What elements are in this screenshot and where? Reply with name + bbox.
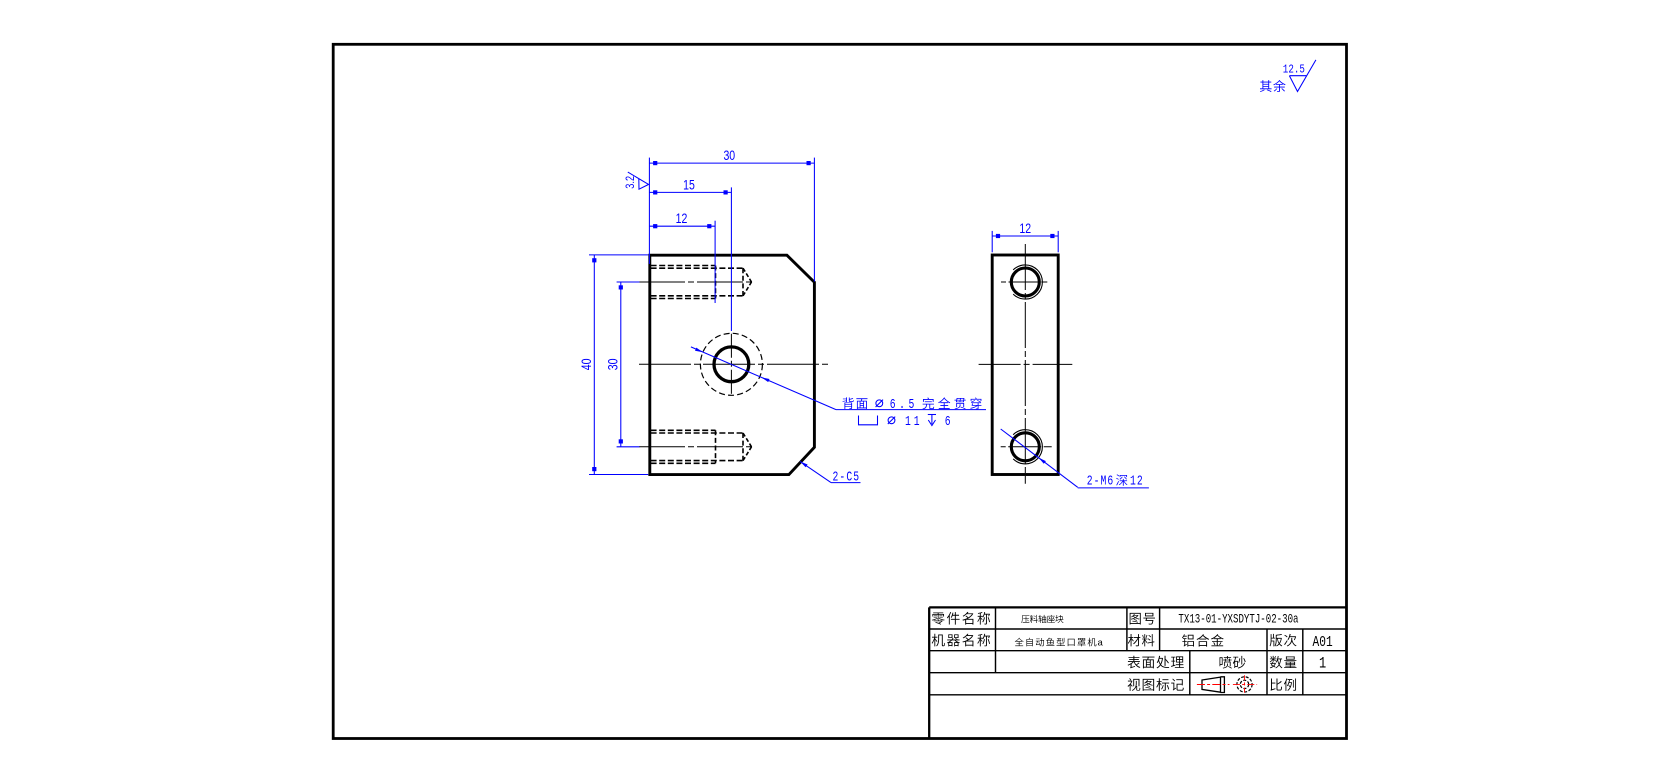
leader 2-C5 chamfer note <box>800 461 831 482</box>
svg-text:1: 1 <box>1319 655 1326 673</box>
upper tapped hole side-view circles <box>1011 268 1039 296</box>
svg-text:12: 12 <box>1130 473 1144 489</box>
dimension 30 (left, hole spacing) <box>617 281 640 283</box>
svg-text:40: 40 <box>579 358 595 370</box>
svg-text:6: 6 <box>945 414 951 430</box>
svg-text:2-C5: 2-C5 <box>833 469 861 485</box>
lower M6 tapped hole (hidden) front view <box>651 429 716 431</box>
side view vertical centerline <box>1024 244 1026 484</box>
svg-text:A01: A01 <box>1313 633 1333 650</box>
svg-text:15: 15 <box>683 177 695 193</box>
upper M6 tapped hole (hidden) front view <box>651 265 716 267</box>
depth symbol <box>928 414 936 416</box>
lower hole horizontal centerline <box>1001 446 1052 448</box>
svg-text:a: a <box>1098 637 1104 648</box>
svg-text:11: 11 <box>905 414 922 430</box>
side view horizontal mid centerline <box>979 363 1073 365</box>
border frame <box>333 44 1346 738</box>
svg-text:3.2: 3.2 <box>625 176 637 189</box>
front view outline <box>650 255 815 474</box>
svg-text:6.5: 6.5 <box>890 397 918 413</box>
svg-text:2-M6: 2-M6 <box>1087 473 1115 489</box>
title block grid <box>929 606 1346 608</box>
central hole centerlines <box>639 363 831 365</box>
central counterbored hole: solid circle <box>714 347 749 382</box>
dimension 30 (top, front view) <box>648 158 650 264</box>
svg-text:30: 30 <box>723 148 735 164</box>
title block row 4: view mark <box>1128 678 1141 691</box>
dimension 15 (top) <box>730 187 732 331</box>
general surface roughness note (top right) <box>1260 80 1272 92</box>
title block row 1: part name <box>932 613 945 625</box>
lower tapped hole side-view circles <box>1011 433 1039 461</box>
dimension 40 (left) <box>589 254 648 256</box>
counterbore symbol line <box>859 416 878 425</box>
svg-text:12: 12 <box>676 211 688 227</box>
lower hole centerline <box>639 446 754 448</box>
svg-text:12.5: 12.5 <box>1283 64 1305 77</box>
svg-text:30: 30 <box>605 358 621 370</box>
svg-text:TX13-01-YXSDYTJ-02-30a: TX13-01-YXSDYTJ-02-30a <box>1178 613 1298 627</box>
first-angle projection symbol: frustum <box>1202 677 1221 692</box>
title block row 3: surface treatment <box>1128 656 1141 669</box>
counterbore circle (hidden, back side) <box>700 333 762 395</box>
upper hole centerline <box>639 281 754 283</box>
leader 2-M6 deep 12 <box>1001 429 1078 487</box>
upper hole horizontal centerline <box>1001 281 1047 283</box>
svg-text:12: 12 <box>1019 221 1031 237</box>
first-angle projection symbol: circles view <box>1237 677 1252 692</box>
side view outline <box>992 255 1058 475</box>
surface finish symbol 3.2 on left face <box>628 172 649 189</box>
dimension 12 (side view width) <box>991 231 993 252</box>
dimension 12 (top, thread depth) <box>714 221 716 303</box>
title block row 2: machine name <box>932 634 945 647</box>
leader: counterbore note for central hole <box>691 347 836 410</box>
